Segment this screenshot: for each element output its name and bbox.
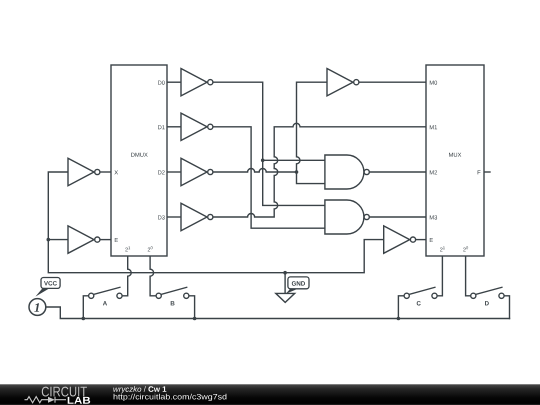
wire: switch C left terminal to bottom bus <box>398 296 404 319</box>
wire: DMUX D0 stub <box>167 81 181 83</box>
wire: DMUX D3 stub <box>167 216 181 218</box>
wire: source output and bottom bus <box>46 307 510 319</box>
logo CircuitLab <box>25 387 91 404</box>
wire: M0 inverter output to MUX M0 <box>359 81 427 83</box>
wire: switch A left terminal to bottom bus <box>83 296 88 319</box>
wire: DMUX 2^0 pin down to switch B left terminal (hop over ground rail) <box>150 256 156 296</box>
MUX U2 <box>426 65 484 256</box>
wire: MUX 2^1 pin down to switch C right terminal <box>437 256 442 296</box>
wire: D2 net with hops to junction and NAND1 bottom input <box>212 169 325 184</box>
wire: M0 inverter input riser <box>297 82 328 172</box>
inverter U7 (D2) <box>181 158 213 185</box>
switch B (SWB) <box>156 287 189 305</box>
net flag GND <box>286 277 309 294</box>
wire: MUX F output stub <box>484 171 490 173</box>
node: junction ground stub <box>283 271 287 275</box>
switch C (SWC) <box>404 287 437 305</box>
wire: D1 net to NAND2 bottom input <box>212 127 325 228</box>
wire: DMUX D1 stub <box>167 126 181 128</box>
inverter U3 (X driver) <box>68 158 100 185</box>
footer url text <box>114 394 227 401</box>
wire: E inverter output to DMUX E pin <box>100 239 111 241</box>
node: junction left rail / E inverter input <box>47 238 51 242</box>
wire: ground net rail from X/E inverter inputs across bottom to MUX E inverter input <box>48 172 383 273</box>
wire: D3 net riser with hops to MUX M1 <box>212 123 426 217</box>
inverter U9 (M0 driver) <box>327 69 359 96</box>
wire: switch B right terminal to bottom bus <box>189 296 195 319</box>
footer bar <box>0 384 540 405</box>
nand gate U11 <box>325 155 369 189</box>
node: junction bus / switch C <box>397 317 401 321</box>
net flag VCC <box>35 278 60 297</box>
wire: D0 net to NAND gates <box>212 82 325 205</box>
wire: switch D right terminal to bottom bus <box>504 296 509 319</box>
node: junction D2 net / M0 inverter riser <box>295 170 299 174</box>
DMUX U1 <box>111 65 167 256</box>
footer title: wryczko / Cw 1 <box>113 386 226 401</box>
source V1 (circled 1) <box>29 299 46 316</box>
switch A (SWA) <box>89 287 123 305</box>
node: junction bus / switch A <box>82 317 86 321</box>
wire: DMUX 2^1 pin down to switch A right terminal (hop over ground rail) <box>122 256 131 296</box>
node: junction D0 net / NAND1 top input <box>261 159 265 163</box>
switch D (SWD) <box>471 287 504 305</box>
wire: NAND2 output to MUX M3 <box>369 216 426 218</box>
wire: X inverter output to DMUX X pin <box>100 171 111 173</box>
wire: DMUX D2 stub <box>167 171 181 173</box>
inverter U8 (D3) <box>181 203 213 230</box>
inverter U6 (D1) <box>181 113 213 140</box>
node: junction bus / switch B <box>193 317 197 321</box>
wire: MUX 2^0 pin down to switch D left terminal <box>466 256 471 296</box>
inverter U4 (DMUX E driver) <box>68 226 100 253</box>
wire: MUX E inverter output to E pin <box>415 239 426 241</box>
nand gate U12 <box>325 200 369 234</box>
ground symbol <box>276 273 295 303</box>
inverter U10 (MUX E driver) <box>384 226 416 253</box>
wire: NAND1 output to MUX M2 <box>369 171 426 173</box>
inverter U5 (D0) <box>181 69 213 96</box>
